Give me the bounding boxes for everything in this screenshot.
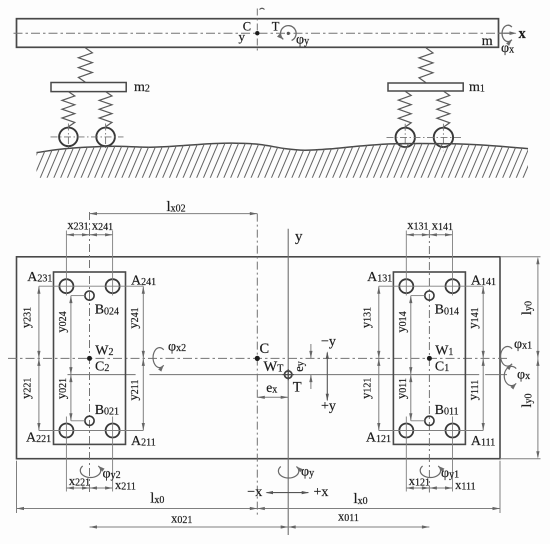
svg-text:x: x [519,26,527,42]
svg-text:−y: −y [321,335,336,350]
svg-text:T: T [272,20,280,34]
svg-text:y: y [295,229,303,245]
svg-text:+y: +y [321,399,336,414]
svg-text:m: m [482,34,493,49]
svg-text:y: y [239,29,246,44]
svg-text:T: T [293,380,302,396]
svg-text:−x: −x [247,485,262,500]
svg-text:+x: +x [314,485,329,500]
svg-text:C: C [260,341,270,357]
